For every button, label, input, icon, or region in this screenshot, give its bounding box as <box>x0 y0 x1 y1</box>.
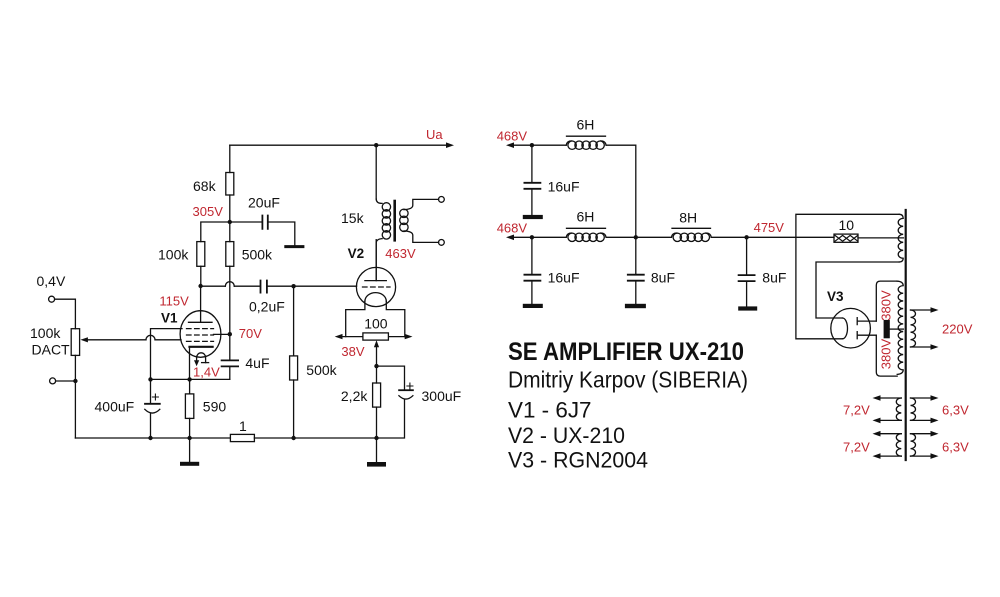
capacitor 0,2uF <box>268 285 294 287</box>
capacitor 8uF #2 <box>746 237 748 306</box>
resistor 1 (bottom rail) <box>230 434 254 441</box>
resistor 100k (plate load) <box>201 222 230 286</box>
wire 8H to 10 resistor <box>711 236 834 238</box>
svg-text:0,2uF: 0,2uF <box>249 299 285 315</box>
choke 6H #1 <box>566 141 571 145</box>
node dot 590 rail <box>187 436 191 440</box>
resistor 590 <box>189 379 191 438</box>
filament winding 6,3V #2 <box>911 434 916 456</box>
node dot 16uF#2 <box>530 235 534 239</box>
rectifier filament winding (left top) <box>898 214 903 262</box>
ground bar HV center tap <box>884 320 890 338</box>
wire 115V to 0,2uF with hop over screen column <box>201 285 261 287</box>
cathode node line <box>151 378 230 380</box>
svg-text:V1 - 6J7: V1 - 6J7 <box>508 398 592 423</box>
wiper arrow up <box>374 340 379 347</box>
svg-text:V2: V2 <box>348 246 365 261</box>
V3 filament wire bottom (winding bottom end) <box>816 262 899 318</box>
svg-text:Dmitriy Karpov (SIBERIA): Dmitriy Karpov (SIBERIA) <box>508 367 748 393</box>
hop of grid wire over g3 vertical <box>146 335 155 340</box>
V1 cathode <box>190 346 213 348</box>
svg-text:10: 10 <box>839 217 855 233</box>
svg-text:16uF: 16uF <box>548 269 580 285</box>
ground 16uF#2 <box>523 304 543 308</box>
speaker terminal lower <box>439 240 445 246</box>
ground 20uF <box>286 245 303 248</box>
wire 10 to winding tap <box>858 237 903 239</box>
svg-text:115V: 115V <box>159 294 189 309</box>
wire input to DACT top <box>55 299 76 329</box>
svg-text:100: 100 <box>364 316 388 332</box>
V1 plate <box>189 286 213 322</box>
HV winding 380V+380V bumps <box>897 281 903 374</box>
wiper arrow <box>80 337 88 342</box>
wire choke2 to 8H <box>606 236 671 238</box>
svg-text:38V: 38V <box>341 344 364 359</box>
potentiometer 100 (hum) <box>363 333 389 340</box>
node dot cathode <box>187 377 191 381</box>
arrow 1,4V down <box>194 360 199 366</box>
svg-text:V3: V3 <box>827 289 844 304</box>
svg-text:68k: 68k <box>193 178 217 194</box>
OPT primary coil 15k <box>376 199 382 203</box>
transformer core <box>905 210 907 460</box>
svg-text:1,4V: 1,4V <box>193 365 220 380</box>
arrows 220V <box>931 307 939 313</box>
svg-text:70V: 70V <box>239 326 262 341</box>
svg-text:7,2V: 7,2V <box>843 403 870 418</box>
svg-text:6,3V: 6,3V <box>942 403 969 418</box>
filament supply arrows <box>341 336 407 338</box>
wire DACT wiper <box>87 339 182 341</box>
svg-text:8uF: 8uF <box>651 269 675 285</box>
capacitor 400uF <box>150 379 152 438</box>
ground 8uF#1 <box>625 304 646 308</box>
capacitor 4uF <box>229 334 231 379</box>
OPT primary lead <box>375 145 377 199</box>
svg-text:16uF: 16uF <box>548 179 580 195</box>
OPT secondary coil <box>404 199 439 209</box>
V2 filament arc <box>365 293 386 302</box>
svg-text:468V: 468V <box>497 221 528 236</box>
node dot 16uF#1 <box>530 143 534 147</box>
wire DACT bottom to bottom rail <box>74 355 76 438</box>
filament tick <box>202 362 209 364</box>
svg-text:500k: 500k <box>306 362 337 378</box>
node dot 70V <box>228 332 232 336</box>
svg-text:8uF: 8uF <box>762 269 786 285</box>
filament winding 6,3V #1 <box>911 398 916 420</box>
node dot OPT primary <box>374 143 378 147</box>
svg-text:V3 - RGN2004: V3 - RGN2004 <box>508 448 648 473</box>
svg-text:463V: 463V <box>385 246 416 261</box>
OPT core <box>393 201 396 240</box>
V1 cathode lead down <box>189 347 191 380</box>
node dot 500k rail <box>291 436 295 440</box>
resistor 68k <box>229 145 231 222</box>
capacitor 300uF <box>377 366 405 438</box>
wire lower terminal <box>56 380 76 382</box>
potentiometer R 100k DACT <box>71 329 79 356</box>
468V rail 1 arrow <box>506 142 514 148</box>
V3 filament arc <box>843 318 848 339</box>
arrow Ua <box>446 142 454 148</box>
capacitor 8uF #1 <box>635 237 637 303</box>
resistor 500k (screen) <box>229 222 231 334</box>
svg-text:2,2k: 2,2k <box>341 388 368 404</box>
capacitor 20uF <box>230 222 295 245</box>
wire choke1 to corner <box>606 145 636 237</box>
svg-text:300uF: 300uF <box>422 388 462 404</box>
svg-text:6H: 6H <box>577 117 595 133</box>
resistor 500k (V2 grid leak) <box>293 286 295 438</box>
V2 grid dashed <box>363 286 391 288</box>
svg-text:V2 - UX-210: V2 - UX-210 <box>508 423 625 448</box>
node dot 0,2uF/500k <box>291 284 295 288</box>
svg-text:500k: 500k <box>242 247 273 263</box>
V2 plate <box>365 240 386 281</box>
ground 16uF#1 <box>523 215 543 219</box>
choke 6H #2 <box>566 233 571 237</box>
top rail B+ <box>230 144 450 146</box>
capacitor 16uF #1 <box>531 145 533 215</box>
wire screen lead <box>214 333 230 335</box>
node dot 115V <box>198 284 202 288</box>
resistor 2,2k <box>373 383 381 407</box>
svg-text:400uF: 400uF <box>95 399 135 415</box>
svg-text:220V: 220V <box>942 322 973 337</box>
V3 filament wire top (winding top end) <box>796 214 899 338</box>
V1 grid g1 dashed <box>187 340 214 342</box>
wire to V2 grid <box>294 285 357 287</box>
node dot lower input <box>73 379 77 383</box>
svg-text:380V: 380V <box>879 338 894 369</box>
svg-text:380V: 380V <box>879 290 894 321</box>
svg-text:100k: 100k <box>158 247 189 263</box>
ground V2 stage <box>376 438 378 462</box>
svg-text:V1: V1 <box>161 311 178 326</box>
node dot g3/cap <box>148 377 152 381</box>
node dot mid rail <box>634 235 638 239</box>
svg-text:20uF: 20uF <box>248 195 280 211</box>
node dot 38V <box>374 364 378 368</box>
filament winding 7,2V #1 <box>896 398 901 420</box>
tube V2 envelope <box>356 267 395 306</box>
speaker terminal upper <box>439 197 445 203</box>
svg-text:6,3V: 6,3V <box>942 440 969 455</box>
svg-text:6H: 6H <box>577 209 595 225</box>
svg-text:0,4V: 0,4V <box>37 273 66 289</box>
svg-text:100k: 100k <box>30 325 61 341</box>
filament winding 7,2V #2 <box>896 434 901 456</box>
tube V3 envelope <box>831 308 871 348</box>
ground V1 stage <box>189 438 191 462</box>
svg-text:475V: 475V <box>754 220 785 235</box>
svg-text:8H: 8H <box>679 210 697 226</box>
node dot 475V <box>744 235 748 239</box>
468V rail 2 arrow <box>506 235 514 241</box>
svg-text:1: 1 <box>239 418 247 434</box>
capacitor 16uF #2 <box>531 237 533 303</box>
svg-text:DACT: DACT <box>32 342 71 358</box>
svg-text:4uF: 4uF <box>245 355 269 371</box>
V1 grid g2 dashed <box>187 334 214 336</box>
tube V1 envelope <box>180 311 221 358</box>
node dot V2 cathode rail <box>374 436 378 440</box>
input terminal upper <box>49 296 55 302</box>
resistor 10 <box>834 234 858 242</box>
input terminal lower <box>50 378 56 384</box>
V1 filament bump <box>197 353 206 363</box>
V3 anode upper <box>857 318 876 325</box>
ground 8uF#2 <box>738 306 757 310</box>
svg-text:305V: 305V <box>193 204 224 219</box>
node dot 400uF rail <box>148 436 152 440</box>
HV center tap to ground bar <box>890 328 903 330</box>
svg-text:SE AMPLIFIER UX-210: SE AMPLIFIER UX-210 <box>508 338 744 366</box>
svg-text:468V: 468V <box>497 128 528 143</box>
V1 grid g3 dashed <box>187 328 214 330</box>
svg-text:Ua: Ua <box>426 127 443 142</box>
svg-text:590: 590 <box>203 399 227 415</box>
choke 8H <box>671 233 676 237</box>
svg-text:15k: 15k <box>341 210 365 226</box>
HV winding outline to anodes <box>876 281 897 321</box>
wire g3 to left and down <box>151 329 183 380</box>
220V winding <box>911 310 916 347</box>
V2 filament legs / frame <box>346 301 405 336</box>
V3 anode lower <box>857 332 876 339</box>
svg-text:7,2V: 7,2V <box>843 440 870 455</box>
bottom rail <box>75 437 376 439</box>
node dot 305V <box>228 220 232 224</box>
